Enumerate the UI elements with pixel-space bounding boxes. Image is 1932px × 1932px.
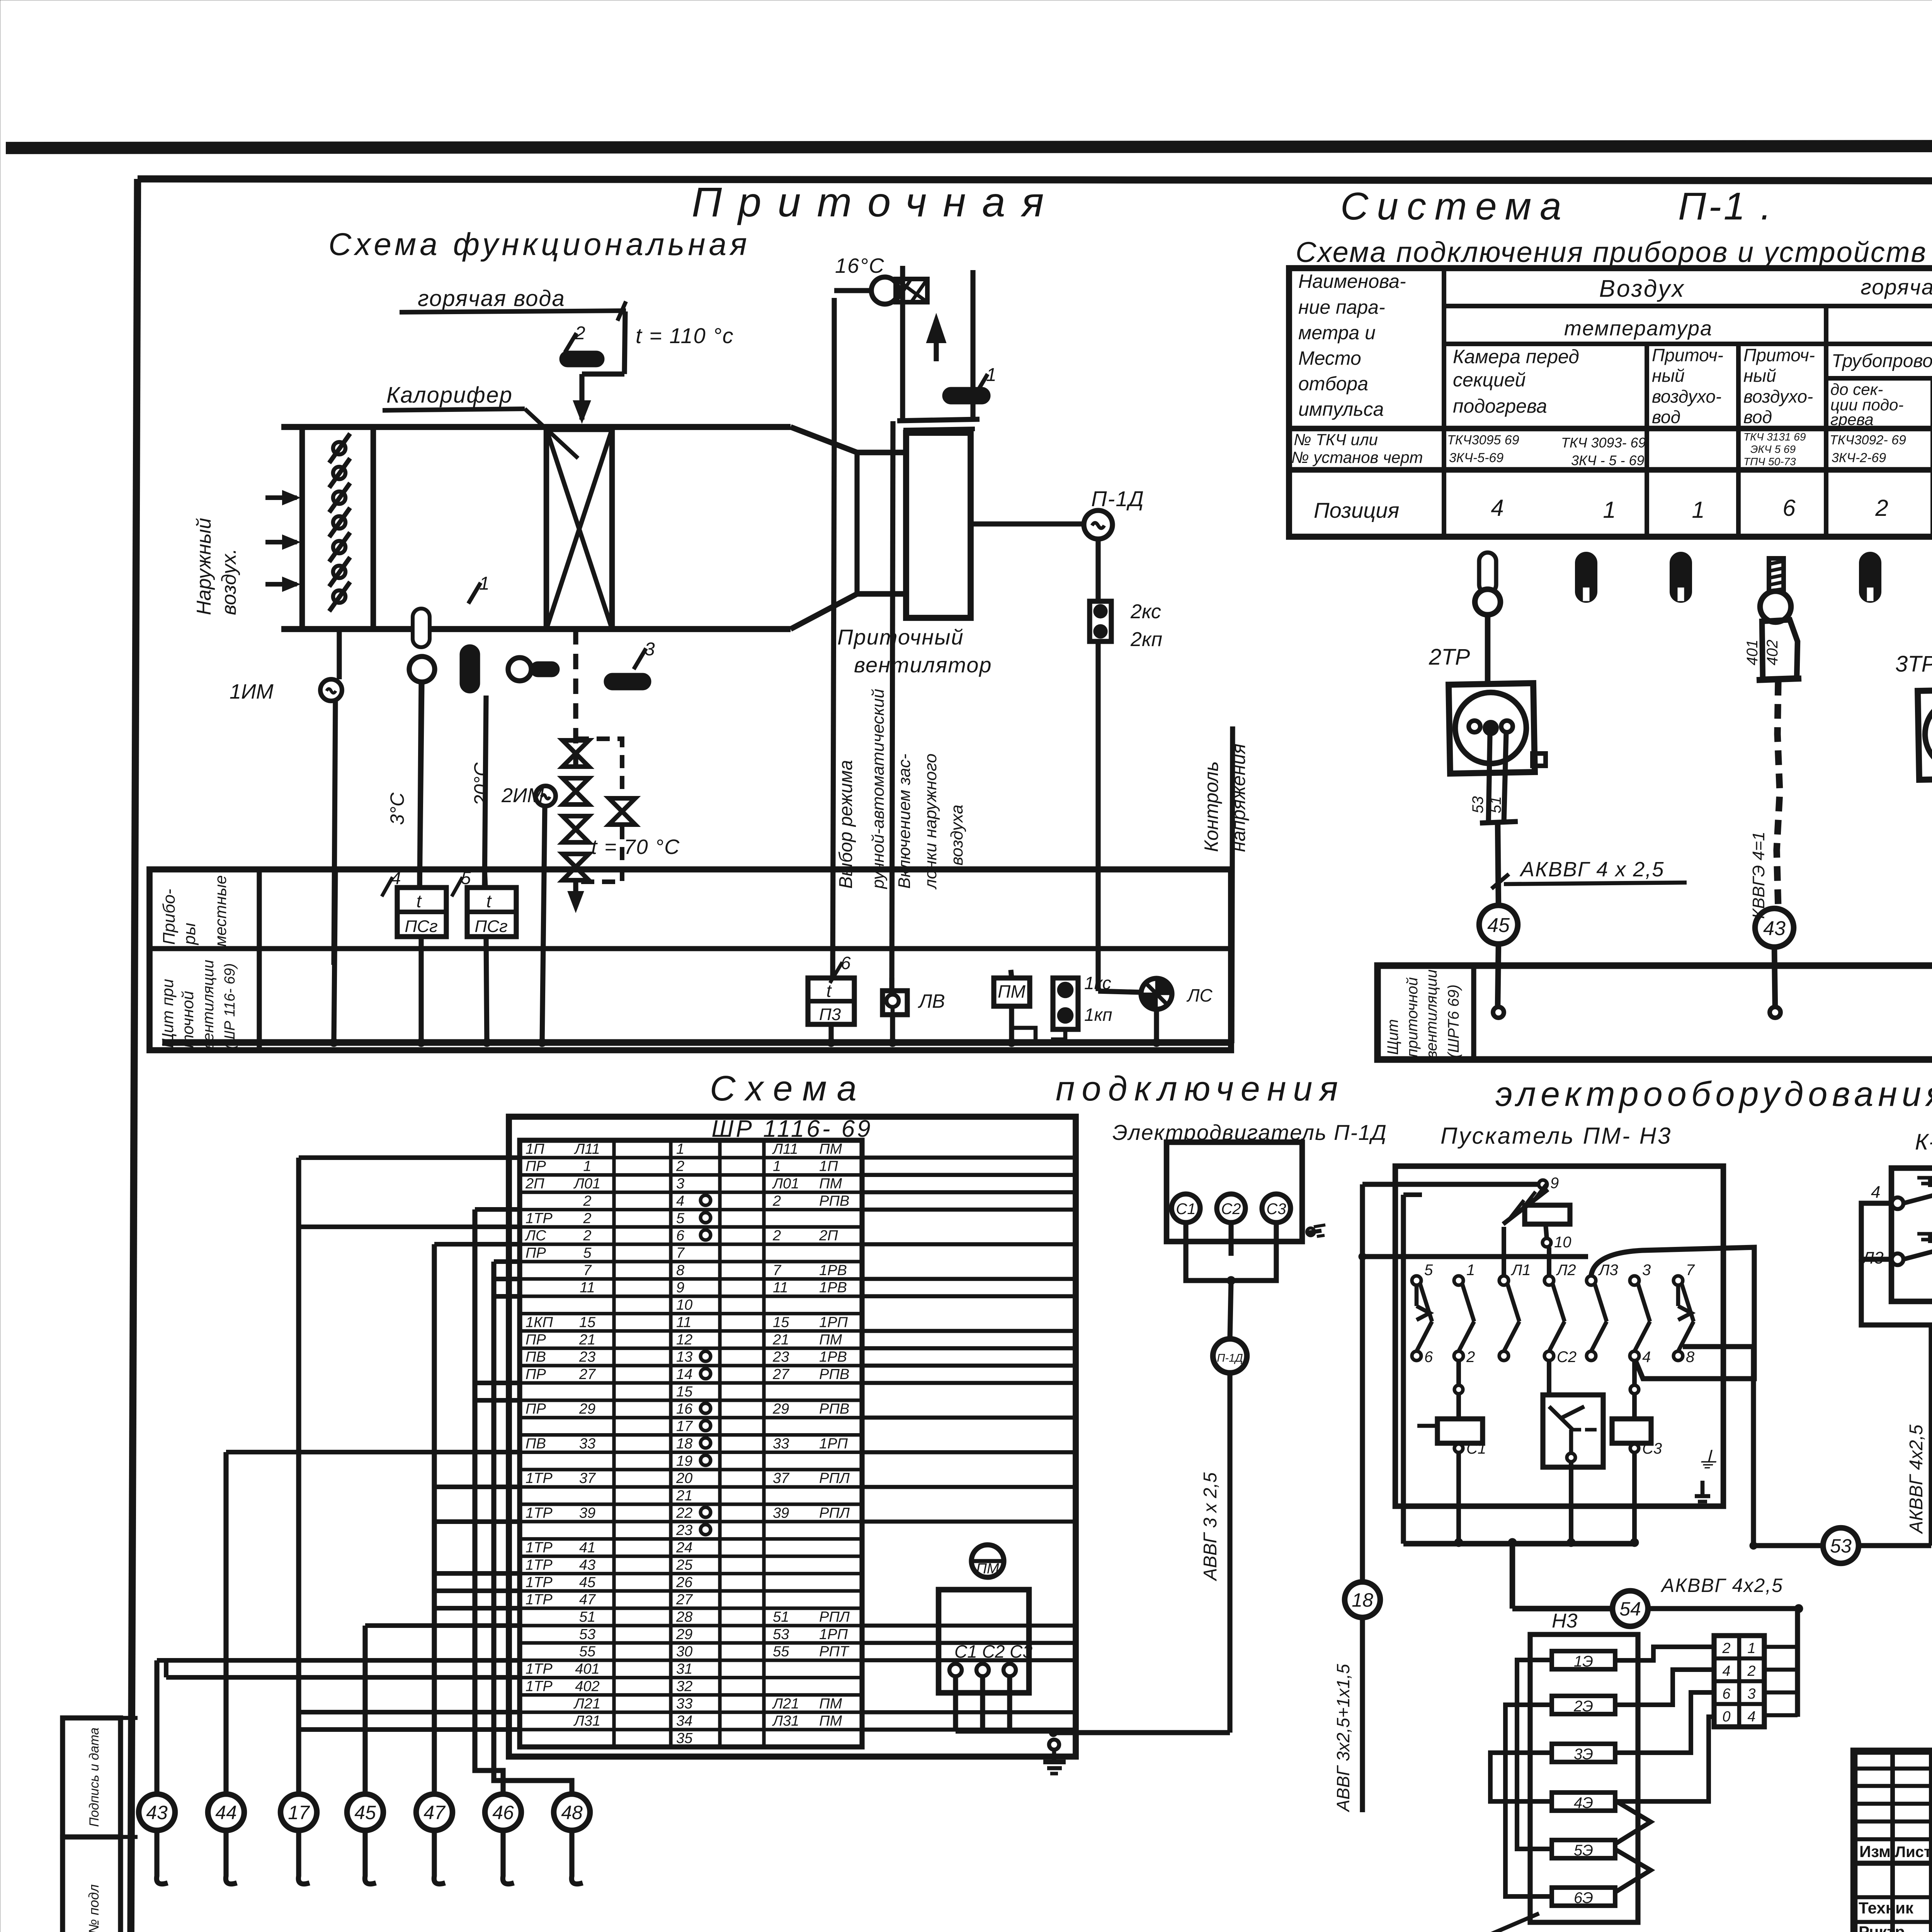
svg-text:1: 1 xyxy=(773,1158,781,1175)
svg-text:ПМ: ПМ xyxy=(819,1713,842,1729)
svg-text:6: 6 xyxy=(1424,1349,1433,1366)
svg-text:РПВ: РПВ xyxy=(819,1366,849,1383)
svg-text:15: 15 xyxy=(579,1314,596,1330)
svg-text:2: 2 xyxy=(583,1210,591,1226)
svg-text:1кс: 1кс xyxy=(1084,973,1111,993)
svg-text:2кп: 2кп xyxy=(1130,628,1162,651)
svg-text:1ТР: 1ТР xyxy=(526,1661,553,1677)
svg-text:46: 46 xyxy=(492,1802,514,1823)
svg-text:1РВ: 1РВ xyxy=(819,1349,847,1365)
svg-text:Схема: Схема xyxy=(710,1069,867,1108)
svg-text:37: 37 xyxy=(773,1470,790,1486)
svg-text:Л21: Л21 xyxy=(772,1696,799,1712)
svg-text:12: 12 xyxy=(676,1332,692,1348)
svg-text:33: 33 xyxy=(579,1435,595,1452)
svg-text:401: 401 xyxy=(1744,639,1761,665)
svg-text:5Э: 5Э xyxy=(1574,1842,1593,1859)
svg-text:3КЧ-5-69: 3КЧ-5-69 xyxy=(1449,451,1503,465)
svg-text:9: 9 xyxy=(1550,1175,1559,1192)
svg-text:ЛС: ЛС xyxy=(524,1228,546,1244)
svg-text:ПМ: ПМ xyxy=(819,1696,842,1712)
svg-text:Л21: Л21 xyxy=(573,1696,600,1712)
svg-text:2: 2 xyxy=(1875,495,1888,521)
svg-text:РПТ: РПТ xyxy=(819,1644,850,1660)
svg-text:2П: 2П xyxy=(819,1228,838,1244)
svg-text:3°С: 3°С xyxy=(386,792,408,825)
svg-text:2: 2 xyxy=(1747,1663,1755,1679)
svg-text:27: 27 xyxy=(676,1592,693,1608)
svg-text:Схема подключения приборов и у: Схема подключения приборов и устройств т… xyxy=(1296,236,1932,268)
svg-text:35: 35 xyxy=(676,1730,693,1747)
svg-text:2: 2 xyxy=(583,1228,591,1244)
svg-text:28: 28 xyxy=(676,1609,692,1625)
svg-text:t: t xyxy=(486,891,492,911)
svg-text:6Э: 6Э xyxy=(1574,1889,1593,1906)
svg-text:Изм: Изм xyxy=(1859,1842,1891,1861)
svg-text:Позиция: Позиция xyxy=(1314,498,1399,522)
svg-text:2: 2 xyxy=(772,1228,781,1244)
svg-text:электрооборудования.: электрооборудования. xyxy=(1495,1075,1932,1114)
svg-text:Подпись и дата: Подпись и дата xyxy=(87,1728,102,1827)
svg-text:55: 55 xyxy=(579,1644,596,1660)
svg-text:воздух.: воздух. xyxy=(218,548,240,615)
svg-text:7: 7 xyxy=(583,1262,592,1279)
svg-text:51: 51 xyxy=(773,1609,789,1625)
svg-text:7: 7 xyxy=(1686,1262,1695,1279)
svg-text:ный: ный xyxy=(1743,366,1776,386)
svg-text:51: 51 xyxy=(579,1609,595,1625)
svg-text:2: 2 xyxy=(1722,1640,1730,1656)
svg-text:6: 6 xyxy=(1782,495,1796,521)
svg-text:22: 22 xyxy=(676,1505,692,1521)
svg-text:10: 10 xyxy=(676,1297,692,1313)
svg-text:30: 30 xyxy=(676,1644,692,1660)
svg-text:1: 1 xyxy=(1466,1262,1475,1279)
svg-text:2кс: 2кс xyxy=(1130,600,1161,623)
svg-text:44: 44 xyxy=(215,1802,237,1823)
svg-text:ние пара-: ние пара- xyxy=(1298,296,1385,318)
svg-text:53: 53 xyxy=(773,1626,789,1643)
svg-text:23: 23 xyxy=(676,1522,692,1539)
svg-text:32: 32 xyxy=(676,1678,692,1694)
svg-text:45: 45 xyxy=(354,1802,376,1823)
svg-text:Щит: Щит xyxy=(1384,1019,1401,1055)
svg-text:2: 2 xyxy=(676,1158,684,1175)
svg-text:Трубопровод: Трубопровод xyxy=(1832,351,1932,371)
svg-text:горячая вода: горячая вода xyxy=(1861,275,1932,299)
svg-text:Камера перед: Камера перед xyxy=(1453,346,1579,367)
svg-text:ПР: ПР xyxy=(526,1366,546,1383)
svg-text:48: 48 xyxy=(561,1802,583,1823)
svg-text:2ИМ: 2ИМ xyxy=(501,784,544,807)
svg-text:горячая вода: горячая вода xyxy=(418,286,565,311)
svg-text:15: 15 xyxy=(773,1314,789,1330)
svg-text:Рчктр: Рчктр xyxy=(1859,1923,1905,1932)
svg-text:1Э: 1Э xyxy=(1574,1653,1593,1670)
svg-text:43: 43 xyxy=(579,1557,595,1573)
svg-text:(ШРТ6 69): (ШРТ6 69) xyxy=(1445,985,1462,1058)
svg-text:11: 11 xyxy=(580,1280,595,1296)
svg-text:53: 53 xyxy=(579,1626,595,1643)
svg-text:3: 3 xyxy=(1747,1686,1755,1702)
svg-text:РПЛ: РПЛ xyxy=(819,1609,850,1625)
svg-text:5: 5 xyxy=(676,1210,685,1226)
svg-text:5: 5 xyxy=(583,1245,592,1261)
svg-text:t: t xyxy=(417,891,422,911)
svg-text:АВВГ 3 х 2,5: АВВГ 3 х 2,5 xyxy=(1200,1472,1221,1582)
svg-text:Щит при: Щит при xyxy=(158,979,177,1048)
svg-text:вентиляции: вентиляции xyxy=(200,960,217,1049)
svg-text:КВВГЭ 4=1: КВВГЭ 4=1 xyxy=(1749,832,1768,919)
svg-text:Лист: Лист xyxy=(1895,1844,1932,1861)
svg-text:14: 14 xyxy=(676,1366,692,1383)
svg-text:Схема функциональная: Схема функциональная xyxy=(328,227,750,262)
svg-text:АКВВГ 4х2,5: АКВВГ 4х2,5 xyxy=(1660,1575,1783,1596)
svg-text:16°С: 16°С xyxy=(835,254,885,277)
svg-text:15: 15 xyxy=(676,1384,693,1400)
svg-text:отбора: отбора xyxy=(1298,373,1368,395)
svg-text:13: 13 xyxy=(676,1349,692,1365)
svg-text:29: 29 xyxy=(676,1626,692,1643)
svg-text:ПВ: ПВ xyxy=(526,1435,546,1452)
svg-text:3ТР: 3ТР xyxy=(1895,651,1932,677)
svg-text:39: 39 xyxy=(773,1505,789,1521)
svg-text:7: 7 xyxy=(773,1262,782,1279)
svg-text:АКВВГ 4 х 2,5: АКВВГ 4 х 2,5 xyxy=(1519,858,1664,881)
svg-text:ЭКЧ 5 69: ЭКЧ 5 69 xyxy=(1750,443,1796,455)
svg-text:4Э: 4Э xyxy=(1574,1794,1593,1811)
svg-text:ТПЧ 50-73: ТПЧ 50-73 xyxy=(1743,456,1796,468)
svg-text:1ТР: 1ТР xyxy=(526,1505,553,1521)
svg-text:П-1Д: П-1Д xyxy=(1217,1352,1243,1364)
svg-text:АКВВГ 4х2,5: АКВВГ 4х2,5 xyxy=(1906,1424,1927,1534)
svg-text:1: 1 xyxy=(1603,497,1616,523)
svg-text:21: 21 xyxy=(579,1332,595,1348)
svg-text:8: 8 xyxy=(676,1262,684,1279)
svg-text:С1: С1 xyxy=(1176,1201,1196,1218)
svg-text:6: 6 xyxy=(676,1228,685,1244)
svg-text:ПР: ПР xyxy=(526,1401,546,1417)
svg-text:П3: П3 xyxy=(819,1005,841,1024)
svg-text:РПВ: РПВ xyxy=(819,1401,849,1417)
svg-text:1РП: 1РП xyxy=(819,1626,848,1643)
svg-text:4: 4 xyxy=(1722,1663,1730,1679)
svg-text:ТКЧ3095 69: ТКЧ3095 69 xyxy=(1447,433,1519,447)
svg-text:1РП: 1РП xyxy=(819,1314,848,1330)
svg-text:17: 17 xyxy=(676,1418,693,1435)
svg-text:47: 47 xyxy=(579,1592,596,1608)
svg-text:Приточная: Приточная xyxy=(692,179,1060,225)
svg-text:45: 45 xyxy=(579,1574,596,1590)
svg-text:5: 5 xyxy=(1424,1262,1433,1279)
svg-text:1КП: 1КП xyxy=(526,1314,553,1330)
svg-text:1ТР: 1ТР xyxy=(526,1557,553,1573)
svg-text:Л3: Л3 xyxy=(1598,1262,1618,1279)
svg-text:вентиляции: вентиляции xyxy=(1423,969,1440,1059)
svg-text:Л11: Л11 xyxy=(772,1141,798,1157)
svg-text:17: 17 xyxy=(288,1802,310,1823)
svg-text:ПР: ПР xyxy=(526,1245,546,1261)
svg-text:Место: Место xyxy=(1298,347,1361,369)
svg-text:34: 34 xyxy=(676,1713,692,1729)
svg-text:53: 53 xyxy=(1469,796,1486,814)
svg-text:37: 37 xyxy=(579,1470,596,1486)
svg-text:АВВГ 3х2,5+1х1,5: АВВГ 3х2,5+1х1,5 xyxy=(1333,1664,1353,1813)
svg-text:РПЛ: РПЛ xyxy=(819,1470,850,1486)
svg-text:29: 29 xyxy=(772,1401,789,1417)
svg-text:26: 26 xyxy=(676,1574,693,1590)
svg-text:вод: вод xyxy=(1743,407,1772,427)
svg-text:ры: ры xyxy=(180,923,199,946)
svg-text:ПСг: ПСг xyxy=(405,917,437,936)
svg-text:метра и: метра и xyxy=(1298,322,1376,344)
svg-text:4: 4 xyxy=(1642,1349,1651,1366)
svg-text:С3: С3 xyxy=(1266,1201,1286,1218)
svg-text:2Э: 2Э xyxy=(1573,1698,1593,1715)
svg-text:19: 19 xyxy=(676,1453,692,1469)
svg-text:18: 18 xyxy=(1352,1589,1373,1611)
svg-text:Наименова-: Наименова- xyxy=(1298,270,1406,292)
svg-text:33: 33 xyxy=(773,1435,789,1452)
svg-text:20: 20 xyxy=(676,1470,692,1486)
svg-text:С3: С3 xyxy=(1642,1440,1662,1457)
svg-text:54: 54 xyxy=(1619,1598,1641,1620)
svg-text:ЛВ: ЛВ xyxy=(918,990,945,1012)
svg-text:21: 21 xyxy=(772,1332,789,1348)
svg-text:Н3: Н3 xyxy=(1552,1610,1578,1632)
svg-text:402: 402 xyxy=(1764,639,1781,665)
svg-text:Л2: Л2 xyxy=(1556,1262,1576,1279)
svg-text:1ТР: 1ТР xyxy=(526,1574,553,1590)
svg-text:Л1: Л1 xyxy=(1510,1262,1531,1279)
svg-text:С1: С1 xyxy=(1466,1440,1486,1457)
svg-text:31: 31 xyxy=(676,1661,692,1677)
svg-text:1РП: 1РП xyxy=(819,1435,848,1452)
svg-text:Контроль: Контроль xyxy=(1201,761,1222,852)
svg-text:подключения: подключения xyxy=(1056,1070,1345,1108)
svg-text:39: 39 xyxy=(579,1505,595,1521)
svg-text:ПМ: ПМ xyxy=(819,1332,842,1348)
svg-text:55: 55 xyxy=(773,1644,789,1660)
svg-text:ТКЧ 3131 69: ТКЧ 3131 69 xyxy=(1743,431,1806,443)
svg-text:импульса: импульса xyxy=(1298,398,1384,420)
svg-text:ПМ: ПМ xyxy=(819,1141,842,1157)
svg-text:Воздух: Воздух xyxy=(1599,276,1685,302)
svg-text:t = 70 °С: t = 70 °С xyxy=(591,835,680,859)
svg-text:вод: вод xyxy=(1652,407,1680,427)
svg-text:ПР: ПР xyxy=(526,1158,546,1175)
svg-text:ЛС: ЛС xyxy=(1186,985,1213,1005)
svg-text:10: 10 xyxy=(1554,1234,1571,1251)
svg-text:43: 43 xyxy=(1763,917,1786,940)
svg-text:2: 2 xyxy=(583,1193,591,1209)
svg-text:ПВ: ПВ xyxy=(526,1349,546,1365)
svg-text:9: 9 xyxy=(676,1280,684,1296)
svg-text:3КЧ-2-69: 3КЧ-2-69 xyxy=(1832,451,1886,465)
svg-text:4: 4 xyxy=(1747,1709,1755,1725)
svg-text:3Э: 3Э xyxy=(1574,1746,1593,1763)
svg-text:1ИМ: 1ИМ xyxy=(230,680,274,703)
svg-text:3КЧ - 5 - 69: 3КЧ - 5 - 69 xyxy=(1571,452,1645,468)
svg-text:3: 3 xyxy=(1642,1262,1651,1279)
svg-text:18: 18 xyxy=(676,1435,692,1452)
svg-text:27: 27 xyxy=(772,1366,790,1383)
svg-text:Л11: Л11 xyxy=(573,1141,600,1157)
svg-text:1ТР: 1ТР xyxy=(526,1540,553,1556)
svg-text:7: 7 xyxy=(676,1245,685,1261)
svg-text:вентилятор: вентилятор xyxy=(854,653,992,677)
svg-text:Приточный: Приточный xyxy=(837,625,964,649)
svg-text:4: 4 xyxy=(676,1193,684,1209)
svg-text:воздуха: воздуха xyxy=(947,804,966,866)
svg-text:23: 23 xyxy=(772,1349,789,1365)
svg-text:Система: Система xyxy=(1340,185,1570,228)
svg-text:43: 43 xyxy=(146,1802,168,1823)
svg-text:С1 С2 С3: С1 С2 С3 xyxy=(954,1641,1032,1662)
svg-text:27: 27 xyxy=(579,1366,596,1383)
svg-text:температура: температура xyxy=(1564,317,1713,340)
svg-text:51: 51 xyxy=(1487,796,1504,814)
svg-text:45: 45 xyxy=(1487,914,1510,937)
svg-text:ПМ: ПМ xyxy=(976,1561,999,1577)
svg-text:РПЛ: РПЛ xyxy=(819,1505,850,1521)
svg-text:1П: 1П xyxy=(819,1158,838,1175)
svg-text:Пускатель ПМ- Н3: Пускатель ПМ- Н3 xyxy=(1440,1123,1672,1149)
svg-text:25: 25 xyxy=(676,1557,693,1573)
svg-text:К- Н3: К- Н3 xyxy=(1915,1129,1932,1155)
svg-text:П-1Д: П-1Д xyxy=(1091,486,1145,511)
svg-text:⏚: ⏚ xyxy=(1696,1447,1719,1473)
svg-text:1ТР: 1ТР xyxy=(526,1592,553,1608)
svg-text:23: 23 xyxy=(579,1349,595,1365)
svg-text:воздухо-: воздухо- xyxy=(1652,386,1721,406)
svg-text:№ установ черт: № установ черт xyxy=(1291,448,1423,466)
svg-text:1: 1 xyxy=(1692,497,1704,523)
svg-text:11: 11 xyxy=(676,1314,691,1330)
svg-text:Приточ-: Приточ- xyxy=(1743,345,1815,365)
svg-text:Прибо-: Прибо- xyxy=(160,889,179,945)
svg-text:29: 29 xyxy=(579,1401,595,1417)
svg-text:ПСг: ПСг xyxy=(474,917,507,936)
svg-text:Л31: Л31 xyxy=(772,1713,799,1729)
svg-text:16: 16 xyxy=(676,1401,693,1417)
svg-text:С2: С2 xyxy=(1221,1201,1241,1218)
svg-text:4: 4 xyxy=(1871,1183,1880,1202)
svg-text:2: 2 xyxy=(1466,1349,1475,1366)
svg-text:Л31: Л31 xyxy=(573,1713,600,1729)
svg-text:1кп: 1кп xyxy=(1084,1005,1112,1025)
svg-text:24: 24 xyxy=(676,1540,692,1556)
svg-text:грева: грева xyxy=(1830,410,1874,429)
svg-text:53: 53 xyxy=(1830,1535,1852,1557)
svg-text:41: 41 xyxy=(579,1540,595,1556)
svg-text:(ШР 116- 69): (ШР 116- 69) xyxy=(222,963,238,1049)
svg-text:Л01: Л01 xyxy=(772,1176,799,1192)
svg-text:6: 6 xyxy=(1722,1686,1731,1702)
svg-text:ручной-автоматический: ручной-автоматический xyxy=(869,689,888,889)
svg-text:1П: 1П xyxy=(526,1141,544,1157)
svg-text:Приточ-: Приточ- xyxy=(1652,345,1723,365)
svg-text:1ТР: 1ТР xyxy=(526,1678,553,1694)
svg-text:3: 3 xyxy=(676,1176,684,1192)
svg-text:402: 402 xyxy=(575,1678,599,1694)
svg-text:Наружный: Наружный xyxy=(193,518,215,615)
svg-text:ПМ: ПМ xyxy=(998,981,1026,1002)
svg-text:ный: ный xyxy=(1652,366,1685,386)
svg-text:Техник: Техник xyxy=(1859,1899,1914,1917)
svg-text:РПВ: РПВ xyxy=(819,1193,849,1209)
svg-text:секцией: секцией xyxy=(1453,369,1526,391)
svg-text:2ТР: 2ТР xyxy=(1429,645,1470,670)
svg-text:1РВ: 1РВ xyxy=(819,1280,847,1296)
svg-text:20°С: 20°С xyxy=(470,762,492,806)
svg-text:2: 2 xyxy=(772,1193,781,1209)
svg-text:47: 47 xyxy=(423,1802,446,1823)
svg-text:приточной: приточной xyxy=(1404,977,1421,1057)
svg-text:33: 33 xyxy=(676,1696,692,1712)
svg-text:1: 1 xyxy=(1747,1640,1755,1656)
svg-text:8: 8 xyxy=(1686,1349,1695,1366)
svg-text:1: 1 xyxy=(676,1141,684,1157)
svg-text:1ТР: 1ТР xyxy=(526,1470,553,1486)
svg-text:1: 1 xyxy=(583,1158,591,1175)
svg-text:11: 11 xyxy=(773,1280,788,1296)
svg-text:ПМ: ПМ xyxy=(819,1176,842,1192)
svg-text:Инв № подл: Инв № подл xyxy=(86,1884,102,1932)
svg-text:подогрева: подогрева xyxy=(1453,395,1547,417)
svg-text:воздухо-: воздухо- xyxy=(1743,386,1813,406)
svg-text:ПР: ПР xyxy=(526,1332,546,1348)
svg-text:местные: местные xyxy=(211,875,230,947)
svg-text:t = 110 °с: t = 110 °с xyxy=(636,323,734,348)
svg-text:П-1 .: П-1 . xyxy=(1678,185,1774,228)
svg-text:4: 4 xyxy=(1491,495,1503,521)
svg-text:21: 21 xyxy=(676,1488,692,1504)
svg-text:0: 0 xyxy=(1722,1709,1730,1725)
svg-text:2П: 2П xyxy=(525,1176,544,1192)
svg-text:ТКЧ 3093- 69: ТКЧ 3093- 69 xyxy=(1561,435,1646,451)
svg-text:С2: С2 xyxy=(1557,1349,1577,1366)
svg-text:Калорифер: Калорифер xyxy=(386,383,513,408)
svg-text:Л01: Л01 xyxy=(573,1176,600,1192)
svg-text:401: 401 xyxy=(575,1661,599,1677)
svg-text:ТКЧ3092- 69: ТКЧ3092- 69 xyxy=(1830,433,1906,447)
svg-text:1ТР: 1ТР xyxy=(526,1210,553,1226)
svg-text:1РВ: 1РВ xyxy=(819,1262,847,1279)
svg-text:№ ТКЧ или: № ТКЧ или xyxy=(1294,430,1378,449)
